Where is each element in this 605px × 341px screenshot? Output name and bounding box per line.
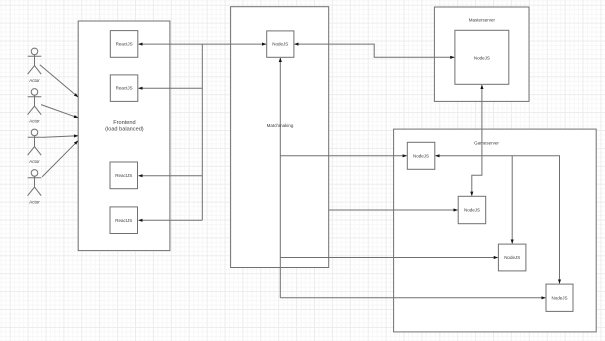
svg-text:(load balanced): (load balanced) [105, 127, 144, 133]
wire vertical bus x202 [201, 44, 203, 220]
box ReactJS R1 [110, 31, 138, 58]
wire NodeJS masterserver to NodeJS G2 (both arrows) [472, 85, 482, 196]
box ReactJS R3 [110, 162, 138, 189]
wire branch to NodeJS G3 top [511, 156, 513, 244]
box NodeJS gameserver G2 [458, 196, 486, 223]
svg-text:Actor: Actor [29, 78, 40, 83]
svg-text:NodeJS: NodeJS [474, 55, 490, 60]
wire vertical bus from NodeJS matchmaking bottom [279, 58, 281, 298]
svg-text:Frontend: Frontend [113, 120, 135, 126]
svg-text:ReactJS: ReactJS [116, 42, 133, 47]
box ReactJS R2 [110, 75, 138, 102]
wire actor1 to Frontend [40, 65, 78, 97]
svg-text:ReactJS: ReactJS [115, 218, 132, 223]
svg-text:Actor: Actor [29, 119, 40, 124]
wire ReactJS R1 to NodeJS matchmaking (both arrows) [139, 43, 266, 45]
svg-text:NodeJS: NodeJS [464, 208, 480, 213]
wire bus to ReactJS R4 [139, 219, 203, 221]
wire actor3 to Frontend [42, 136, 78, 138]
box ReactJS R4 [110, 207, 138, 234]
svg-text:ReactJS: ReactJS [116, 86, 133, 91]
box NodeJS masterserver [455, 30, 509, 84]
svg-text:ReactJS: ReactJS [115, 173, 132, 178]
box NodeJS gameserver G3 [498, 244, 526, 271]
container Masterserver [434, 7, 529, 101]
actor A1 [28, 48, 42, 74]
svg-text:Actor: Actor [29, 200, 40, 205]
wire Matchmaking rect to NodeJS G2 [329, 209, 458, 211]
wire NodeJS G1 to NodeJS G4 (arrow both ends) [436, 156, 560, 284]
box NodeJS matchmaking [267, 31, 294, 57]
actor A2 [28, 89, 42, 115]
actor A4 [28, 170, 42, 196]
svg-text:NodeJS: NodeJS [551, 295, 567, 300]
svg-text:NodeJS: NodeJS [272, 42, 288, 47]
container Frontend (load balanced) [78, 21, 170, 251]
svg-text:NodeJS: NodeJS [413, 153, 429, 158]
svg-text:Matchmaking: Matchmaking [267, 123, 294, 128]
wire bus to NodeJS G1 [280, 155, 406, 157]
container Gameserver [394, 129, 597, 332]
wire actor2 to Frontend [41, 105, 78, 118]
svg-text:Gameserver: Gameserver [474, 140, 499, 145]
box NodeJS gameserver G1 [407, 142, 435, 169]
wire actor4 to Frontend [42, 141, 78, 177]
svg-text:NodeJS: NodeJS [504, 255, 520, 260]
wire bus to ReactJS R2 [139, 87, 203, 89]
svg-text:Actor: Actor [29, 159, 40, 164]
wire bus to NodeJS G4 [280, 297, 545, 299]
actor A3 [28, 129, 42, 155]
svg-text:Masterserver: Masterserver [469, 18, 496, 23]
wire bus to NodeJS G3 [280, 257, 497, 259]
box NodeJS gameserver G4 [546, 284, 573, 311]
wire NodeJS matchmaking to NodeJS masterserver (both arrows) [295, 44, 455, 57]
wire bus to ReactJS R3 [139, 175, 203, 177]
container Matchmaking [231, 7, 329, 268]
